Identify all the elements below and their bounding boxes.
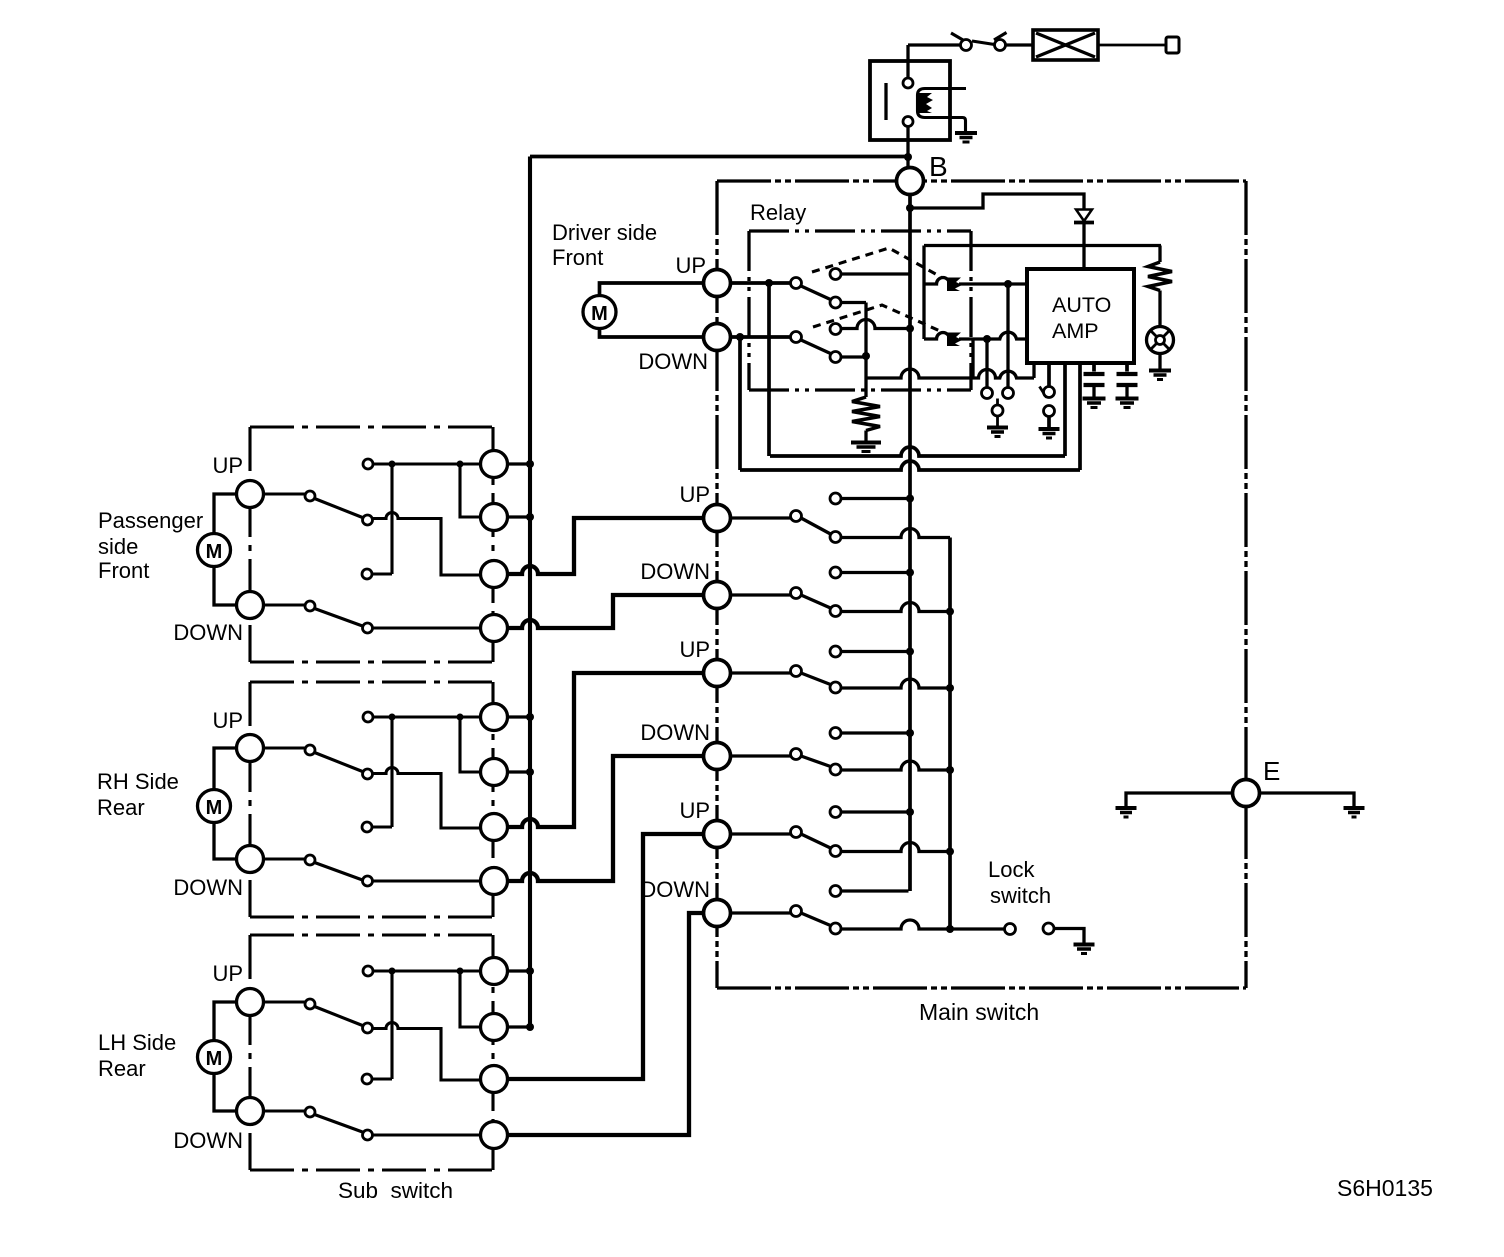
svg-text:LH Side: LH Side [98,1030,176,1055]
svg-text:E: E [1263,756,1280,786]
svg-text:DOWN: DOWN [173,620,243,645]
svg-text:UP: UP [679,637,710,662]
svg-text:M: M [206,1048,223,1070]
svg-text:Front: Front [552,245,603,270]
svg-text:Rear: Rear [98,1056,146,1081]
svg-text:Driver side: Driver side [552,220,657,245]
svg-text:UP: UP [212,961,243,986]
svg-text:DOWN: DOWN [640,877,710,902]
svg-text:UP: UP [679,798,710,823]
svg-text:UP: UP [212,708,243,733]
svg-text:DOWN: DOWN [173,1128,243,1153]
svg-text:Passenger: Passenger [98,508,203,533]
svg-text:Lock: Lock [988,857,1035,882]
svg-text:Rear: Rear [97,795,145,820]
svg-text:AMP: AMP [1052,319,1099,343]
svg-text:Sub switch: Sub switch [338,1178,453,1203]
svg-text:M: M [591,303,608,325]
svg-text:DOWN: DOWN [640,559,710,584]
svg-text:DOWN: DOWN [638,349,708,374]
svg-text:Relay: Relay [750,200,806,225]
svg-text:Main switch: Main switch [919,999,1039,1025]
svg-text:M: M [206,541,223,563]
svg-text:B: B [929,151,948,182]
svg-text:switch: switch [990,883,1051,908]
svg-text:RH Side: RH Side [97,769,179,794]
svg-text:side: side [98,534,138,559]
svg-text:S6H0135: S6H0135 [1337,1175,1433,1201]
svg-text:UP: UP [675,253,706,278]
svg-text:AUTO: AUTO [1052,293,1111,317]
svg-text:UP: UP [212,453,243,478]
svg-text:DOWN: DOWN [640,720,710,745]
svg-text:Front: Front [98,558,149,583]
svg-text:DOWN: DOWN [173,875,243,900]
svg-text:UP: UP [679,482,710,507]
svg-text:M: M [206,797,223,819]
